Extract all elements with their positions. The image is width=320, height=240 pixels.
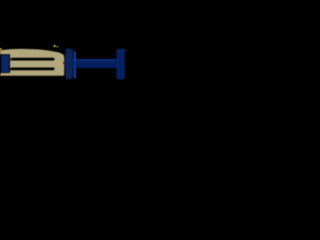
white speck	[54, 46, 57, 47]
magenta speck at wrist-slot1 junction	[9, 59, 12, 60]
dark notch on tan spine right edge	[63, 63, 64, 64]
dumbbell left dark plate	[65, 48, 72, 79]
yellow speck 1	[54, 45, 56, 47]
dumbbell right plate	[116, 49, 125, 79]
dumbbell inner bright plate middle faint segment	[74, 59, 76, 68]
blue speck near right plate	[125, 50, 126, 51]
maroon speck at wrist bottom-left	[0, 73, 2, 74]
dumbbell crossbar top highlight	[65, 59, 117, 61]
dumbbell inner bright plate top segment	[74, 52, 76, 60]
navy wrist rectangle	[1, 55, 9, 72]
dumbbell crossbar	[65, 59, 117, 68]
dumbbell left bar gap shading between plate and stripe	[72, 50, 74, 79]
orange speck at wrist-slot2 junction	[9, 68, 12, 69]
slot 2 (lower black gap)	[0, 68, 55, 71]
pale pink dot at top-left	[0, 48, 3, 49]
navy wrist rectangle black outline	[0, 54, 10, 73]
olive speck at slot2 tip	[53, 66, 56, 69]
tan hand/comb shape	[0, 49, 64, 76]
yellow speck 2	[57, 46, 58, 47]
background	[0, 0, 128, 128]
slot 1 (upper black gap)	[0, 58, 55, 61]
yellow speck at wrist-slot1 junction	[9, 58, 12, 59]
dumbbell inner bright plate bottom segment	[74, 68, 76, 79]
yellow sliver at left edge	[0, 48, 2, 51]
